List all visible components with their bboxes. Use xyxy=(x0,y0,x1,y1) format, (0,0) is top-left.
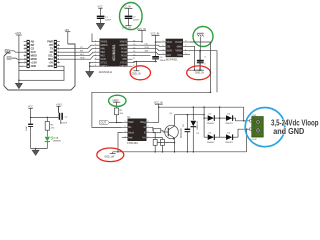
annotation green circle around earth symbol xyxy=(193,27,213,47)
wire loop+ top rail xyxy=(159,106,244,108)
svg-text:100nF: 100nF xyxy=(133,20,140,22)
svg-text:Iin: Iin xyxy=(128,125,131,129)
pin stubs U3 right xyxy=(183,42,190,54)
annotation green ellipse around C2 xyxy=(120,3,143,30)
junction gnd rail below U3 xyxy=(194,69,196,71)
wire loop left rail xyxy=(192,107,194,120)
annotation green ellipse around VREF xyxy=(109,95,126,106)
junction VDD2 rail xyxy=(141,41,143,43)
svg-text:GND_LW: GND_LW xyxy=(104,156,115,159)
junction U2 gnd rail xyxy=(89,62,91,64)
capacitor C7 10uF xyxy=(26,117,33,148)
net label GND_IN below U2 xyxy=(132,62,141,76)
svg-text:SDI: SDI xyxy=(166,53,171,57)
net label GND_IN below C2 xyxy=(122,26,132,30)
wire U2 GND2 rail xyxy=(133,62,158,63)
svg-text:CS: CS xyxy=(145,44,149,46)
wire U2 VOB to U3 xyxy=(133,49,161,51)
connector J2 (8-pin header, 5V side) xyxy=(47,40,60,69)
annotation red ellipse around GND_IN (U2) xyxy=(130,66,150,80)
net label VCC_IN right of U2 xyxy=(137,28,146,31)
capacitor C4 (U3 output filter) xyxy=(197,57,206,71)
wire U2 VID to U3 xyxy=(133,55,151,57)
power symbol VCC (LED block) xyxy=(28,106,33,118)
svg-text:2: 2 xyxy=(162,45,163,47)
svg-text:and GND: and GND xyxy=(273,127,304,136)
svg-text:8: 8 xyxy=(95,65,96,67)
power symbol +3V3 (LED block right) xyxy=(56,104,62,113)
svg-text:MBR120: MBR120 xyxy=(197,120,199,129)
junction VREF/earth xyxy=(200,50,202,52)
svg-text:+3V3: +3V3 xyxy=(15,31,22,35)
svg-text:SCL: SCL xyxy=(48,54,53,58)
svg-text:GND_IN: GND_IN xyxy=(195,72,204,75)
wire VCC_IN to U2 VDD2 xyxy=(133,30,143,41)
pin numbers J2 (red) xyxy=(58,44,60,65)
wire earth down to gnd rail xyxy=(199,46,201,57)
svg-text:8: 8 xyxy=(148,121,149,123)
svg-text:LOOP: LOOP xyxy=(251,139,258,141)
svg-text:SCL: SCL xyxy=(7,58,12,60)
capacitor C5 (across loop) xyxy=(183,114,190,153)
svg-text:3: 3 xyxy=(162,49,163,51)
global label OUT at XTR input xyxy=(100,120,110,124)
svg-text:Gnd: Gnd xyxy=(128,130,134,134)
wire U3 GND to GND_IN rail xyxy=(190,46,195,70)
svg-text:GND: GND xyxy=(48,64,54,68)
svg-text:SCK: SCK xyxy=(31,50,36,54)
wire U2 VDD1 from C1 rail xyxy=(92,34,95,42)
annotation blue circle around CN2 xyxy=(245,108,285,147)
wire bridge rows xyxy=(204,117,208,119)
svg-text:7: 7 xyxy=(95,61,96,63)
svg-text:Iret: Iret xyxy=(128,135,132,139)
svg-text:4: 4 xyxy=(125,136,126,138)
svg-text:MOSI: MOSI xyxy=(31,57,38,61)
module outline MOD1 (chamfered box around headers) xyxy=(4,44,75,90)
svg-text:SDA: SDA xyxy=(48,57,53,61)
wire Q1 collector up to mid rail xyxy=(174,115,176,126)
diode D2 1N4007 (bridge top-left) xyxy=(207,113,215,125)
pin labels J2 xyxy=(47,40,53,69)
svg-text:XTR116U: XTR116U xyxy=(127,141,138,145)
svg-text:6: 6 xyxy=(185,49,186,51)
svg-text:INT: INT xyxy=(49,43,53,47)
svg-text:ADUM1411: ADUM1411 xyxy=(112,44,116,61)
wire mid rail to bridge xyxy=(175,114,205,116)
svg-text:100nF: 100nF xyxy=(105,20,112,22)
connector J1 (8-pin header, 3.3V side) xyxy=(24,40,38,69)
svg-text:3,5-24Vdc Vloop: 3,5-24Vdc Vloop xyxy=(271,118,319,127)
wire GND loop between J1 and J2 xyxy=(19,66,64,80)
junction GND loop xyxy=(18,80,20,82)
svg-text:7: 7 xyxy=(185,45,186,47)
annotation red ellipse around GND_LW xyxy=(97,148,124,162)
wire LED block top rail xyxy=(31,116,59,118)
diode D5 1N5819 (reverse protection, vertical) xyxy=(191,120,201,152)
wire U3 VOUT to XTR input (long loop) xyxy=(92,42,211,127)
svg-text:E: E xyxy=(144,130,146,134)
svg-text:BC817W: BC817W xyxy=(180,128,183,138)
wire GND_IN rail below U3 xyxy=(187,69,204,71)
wire U4 Vreg to VCC_IN xyxy=(152,121,158,123)
svg-text:VSS: VSS xyxy=(177,53,183,57)
net label GND_IN below U3 xyxy=(195,70,204,74)
svg-text:B: B xyxy=(144,125,146,129)
net label VCC_IN above loop rail xyxy=(154,101,163,122)
wire U3 VREF down xyxy=(190,51,217,93)
svg-text:GND: GND xyxy=(31,64,37,68)
wire GND_LW bottom rail xyxy=(113,151,247,153)
wire bridge left node xyxy=(203,107,205,137)
wire J2 SCL to U2 VIC xyxy=(60,52,95,56)
diode D6 1N4007 (bridge bottom-right) xyxy=(225,132,233,144)
svg-text:4: 4 xyxy=(162,53,163,55)
op-amp U2 ADUM1411 isolator body xyxy=(95,39,136,74)
ground arrow LED block xyxy=(32,149,39,156)
svg-text:10uF: 10uF xyxy=(26,125,28,131)
power symbol +5V above J2 xyxy=(64,28,70,44)
svg-text:Vref: Vref xyxy=(128,120,133,124)
wire U2 VOA to U3 xyxy=(133,45,161,46)
pin stubs U2 right xyxy=(128,42,133,66)
svg-text:1: 1 xyxy=(162,41,163,43)
svg-text:MISO: MISO xyxy=(31,54,37,58)
svg-text:2N4007: 2N4007 xyxy=(225,142,233,144)
svg-text:+3.3V: +3.3V xyxy=(31,61,38,65)
svg-text:GND1: GND1 xyxy=(100,64,108,68)
svg-text:1: 1 xyxy=(95,40,96,42)
wire U2 VDD1 rail to ground xyxy=(90,63,95,70)
wire VCC_IN to U3 VDD xyxy=(156,35,161,42)
svg-text:2N4007: 2N4007 xyxy=(207,123,215,125)
svg-text:+5V: +5V xyxy=(49,61,54,65)
svg-text:2: 2 xyxy=(125,126,126,128)
wire J2 RX to U2 VIB xyxy=(60,49,95,53)
svg-text:5: 5 xyxy=(185,53,186,55)
svg-text:3: 3 xyxy=(95,47,96,49)
capacitor C8 (LED block bypass) xyxy=(59,106,69,124)
transistor Q1 BC817W xyxy=(165,113,183,140)
svg-text:7: 7 xyxy=(148,126,149,128)
svg-text:2: 2 xyxy=(95,44,96,46)
capacitor C2 100nF xyxy=(125,16,140,26)
capacitor C3 100nF (below VCC_IN rail) xyxy=(152,41,166,62)
wire LED block bottom xyxy=(31,148,48,150)
svg-text:100nF: 100nF xyxy=(61,122,68,124)
wire rails jog to terminal xyxy=(243,107,245,121)
pin stubs U4 left xyxy=(122,122,128,137)
svg-text:RX: RX xyxy=(80,51,84,53)
wire +3V3 rail to J1 pin 7 xyxy=(19,62,24,64)
resistor R1 xyxy=(115,108,125,115)
diode D3 1N4007 (bridge top-right) xyxy=(225,113,233,125)
op-amp U4 XTR116 body xyxy=(122,116,153,145)
svg-text:6: 6 xyxy=(95,58,96,60)
wire emitter link xyxy=(157,142,174,144)
pin labels J1 xyxy=(31,40,38,69)
capacitor C1 100nF xyxy=(97,16,112,24)
pin stubs U4 right xyxy=(147,122,153,137)
svg-text:AB: AB xyxy=(31,40,35,44)
wire Q1 emitter down to bottom rail xyxy=(174,138,176,152)
svg-text:11: 11 xyxy=(133,58,135,60)
wire R1 to XTR VREF pin xyxy=(117,115,122,123)
svg-text:1: 1 xyxy=(125,121,126,123)
pin numbers U3 (red) xyxy=(162,41,186,55)
pin numbers U2 (red) xyxy=(95,40,135,67)
global label SDA (left edge) xyxy=(5,49,10,52)
svg-text:5: 5 xyxy=(148,136,149,138)
svg-text:V+: V+ xyxy=(142,135,146,139)
svg-text:4: 4 xyxy=(95,51,96,53)
svg-text:ADUM1411: ADUM1411 xyxy=(99,70,113,74)
ground arrow below U2 left xyxy=(86,70,94,77)
ground GND arrow (inside module box) xyxy=(16,80,23,88)
svg-text:GREEN: GREEN xyxy=(53,141,61,143)
wire J2 TX to U2 VIA xyxy=(60,45,95,49)
ground arrow below C1 xyxy=(96,23,104,29)
net label VREF above R1 xyxy=(112,99,120,108)
wire SCL label to J1 pin 6 xyxy=(12,58,23,59)
svg-text:5: 5 xyxy=(95,54,96,56)
svg-text:CS: CS xyxy=(31,47,35,51)
svg-text:GND2: GND2 xyxy=(119,64,127,68)
svg-text:SDI: SDI xyxy=(145,51,149,53)
resistor R5 (U4 V+ leg) xyxy=(152,138,162,140)
net label GND_LW below rail xyxy=(104,152,116,159)
wire SDA label to J1 pin 4 xyxy=(10,51,23,52)
svg-text:LD1A: LD1A xyxy=(53,137,59,140)
net label VCC_IN above U3 xyxy=(151,33,160,36)
svg-text:INT: INT xyxy=(31,43,35,47)
annotation red ellipse around GND_IN (U3) xyxy=(187,66,211,80)
svg-text:OUT: OUT xyxy=(101,121,107,125)
pin numbers J1 (red) xyxy=(24,44,26,65)
junction GND2 rail xyxy=(136,61,138,63)
svg-text:MCP4921: MCP4921 xyxy=(166,58,178,62)
wire J2 SDA to U2 VID xyxy=(60,56,95,60)
svg-text:2N4007: 2N4007 xyxy=(225,123,233,125)
net label VCC_IN above C2 xyxy=(122,6,133,16)
global label SCL (left edge) xyxy=(7,57,12,60)
svg-text:8: 8 xyxy=(185,41,186,43)
svg-text:TX: TX xyxy=(50,47,53,51)
wire bridge right node to terminal xyxy=(236,118,250,121)
svg-text:6: 6 xyxy=(148,131,149,133)
diode D4 1N4007 (bridge bottom-left) xyxy=(207,132,215,144)
resistor R2 xyxy=(45,117,55,136)
svg-text:SDA: SDA xyxy=(80,57,85,60)
wire bridge mid node xyxy=(219,107,221,137)
wire U2 VOC to U3 xyxy=(133,52,161,54)
svg-text:PWR: PWR xyxy=(47,40,53,44)
resistor R4 (U4 E leg) xyxy=(152,133,155,140)
wire R3 to Q1 base xyxy=(161,131,165,132)
connector CN2 loop terminal block xyxy=(250,115,263,141)
power symbol +3V3 above C1 xyxy=(98,6,103,16)
earth ground symbol above U3 right xyxy=(197,33,204,46)
junction bottom rail xyxy=(117,151,119,153)
LED LD1A GREEN xyxy=(45,136,61,148)
pin stubs U2 left xyxy=(95,42,100,66)
svg-text:RX: RX xyxy=(50,50,54,54)
svg-text:3: 3 xyxy=(125,131,126,133)
svg-text:GND_IN: GND_IN xyxy=(132,72,141,75)
svg-text:2N4007: 2N4007 xyxy=(207,142,215,144)
pin stubs U3 left xyxy=(161,42,166,54)
resistor R3 (Q1 base) xyxy=(151,127,154,130)
svg-text:+5V: +5V xyxy=(64,28,69,32)
transistor U3 MCP4921 DAC body xyxy=(161,39,191,62)
pin numbers U4 (red) xyxy=(125,121,149,138)
svg-text:SDA: SDA xyxy=(5,50,10,53)
power symbol +3V3 above J1 xyxy=(15,31,22,70)
svg-text:Vreg: Vreg xyxy=(140,120,146,124)
svg-text:SCK: SCK xyxy=(145,47,150,49)
wire U4 GND down to GND_LW rail xyxy=(118,133,122,152)
